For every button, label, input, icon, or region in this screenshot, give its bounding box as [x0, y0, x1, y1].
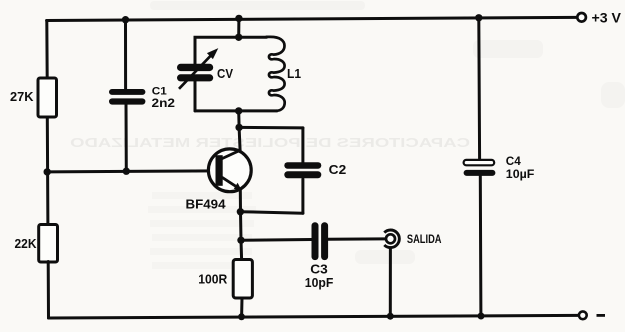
wire tank loop left and top	[195, 37, 267, 66]
wire bottom rail	[49, 315, 579, 318]
node junction bottom C4	[478, 313, 485, 320]
wire base line	[47, 171, 216, 172]
label minus	[597, 314, 606, 317]
svg-text:22K: 22K	[15, 236, 38, 251]
svg-text:100R: 100R	[198, 272, 228, 287]
wire C3 junction to 100R	[240, 240, 244, 259]
terminal +3V	[577, 13, 586, 22]
node junction bottom 100R	[238, 313, 245, 320]
node junction C3 tap	[237, 237, 244, 244]
wire top rail to tank	[237, 18, 240, 37]
wire salida down to bottom rail	[389, 248, 392, 317]
wire tank loop left lower	[194, 79, 197, 111]
wire emitter junction down to C3 junction	[239, 212, 243, 241]
wire C4 to bottom rail	[479, 176, 483, 316]
wire C2 upper lead	[301, 128, 304, 162]
capacitor C1 plates	[109, 89, 145, 105]
resistor R 22K body	[39, 225, 58, 263]
node junction tank top	[235, 34, 242, 41]
node junction top tank	[235, 15, 242, 22]
node junction C1 base	[123, 168, 130, 175]
node junction tank bottom	[235, 107, 242, 114]
svg-text:C2: C2	[329, 162, 347, 177]
svg-text:+3 V: +3 V	[592, 11, 622, 26]
wire C1 top lead	[124, 20, 127, 90]
capacitor CV plates	[177, 64, 213, 82]
node junction collector	[235, 124, 242, 131]
node junction top C4	[475, 14, 482, 21]
node junction top C1	[122, 16, 129, 23]
wire 27K to 22K	[46, 117, 50, 225]
wire tank loop bottom	[195, 109, 277, 112]
capacitor C2 plates	[284, 162, 321, 178]
svg-text:CV: CV	[217, 67, 234, 81]
inductor L1 coil	[267, 37, 285, 111]
wire 100R to bottom rail	[240, 298, 243, 317]
ghost bleed-through band	[70, 135, 470, 150]
wire left rail upper	[45, 21, 48, 80]
wire C2 bottom to emitter junction	[240, 212, 303, 214]
capacitor C4 plate negative	[464, 170, 496, 176]
wire C2 lower lead	[301, 179, 304, 213]
svg-text:BF494: BF494	[186, 196, 227, 211]
svg-text:L1: L1	[287, 67, 301, 81]
resistor R 27K body	[38, 78, 57, 117]
svg-text:10pF: 10pF	[305, 276, 334, 290]
wire tank bottom to collector junction	[239, 111, 240, 151]
wire top rail	[47, 17, 578, 20]
wire C1 bottom lead	[125, 103, 128, 172]
svg-text:C3: C3	[310, 263, 328, 277]
capacitor C4 plate positive	[464, 160, 495, 165]
wire C3 to salida	[328, 237, 386, 240]
node junction emitter	[237, 208, 244, 215]
wire C3 branch horizontal	[241, 238, 312, 242]
capacitor C3 plates	[312, 222, 329, 260]
terminal minus	[579, 311, 587, 319]
connector SALIDA jack	[384, 230, 399, 248]
transistor Q1 BF494	[208, 149, 251, 192]
svg-text:27K: 27K	[10, 89, 34, 104]
svg-text:2n2: 2n2	[152, 96, 176, 110]
wire emitter down	[239, 189, 242, 211]
resistor R 100R body	[233, 260, 252, 299]
node junction bottom salida	[387, 313, 394, 320]
ghost paragraph bottom-left	[148, 192, 256, 269]
svg-text:SALIDA: SALIDA	[407, 232, 442, 246]
wire top rail to C4	[477, 18, 481, 160]
node junction bias divider	[44, 168, 51, 175]
wire 22K to bottom rail	[47, 262, 50, 319]
wire collector junction to C2 top	[239, 126, 303, 130]
capacitor CV arrow	[179, 48, 218, 89]
svg-text:CAPACITORES DE POLIESTER METAL: CAPACITORES DE POLIESTER METALIZADO	[70, 135, 470, 150]
svg-text:10µF: 10µF	[506, 167, 535, 181]
